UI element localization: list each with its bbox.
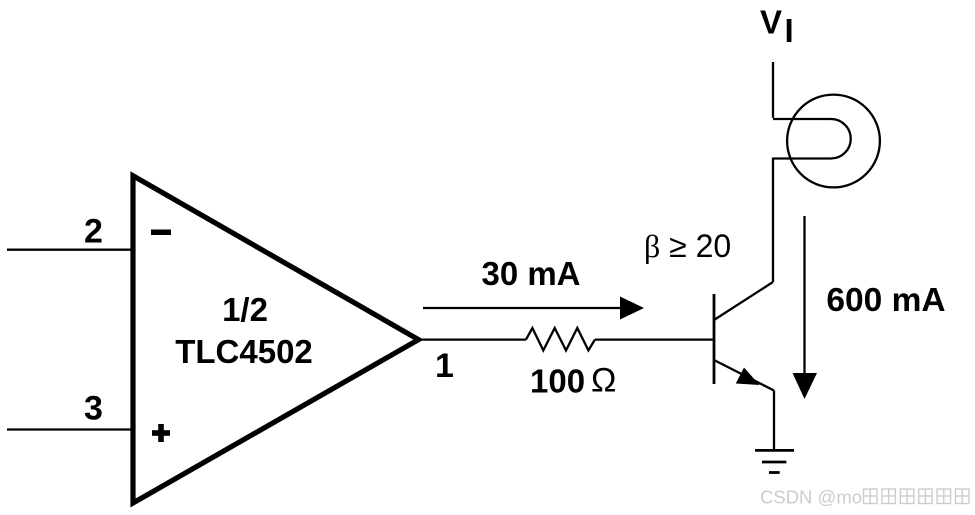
svg-text:100: 100 <box>530 362 585 399</box>
svg-text:Ω: Ω <box>591 362 616 400</box>
svg-text:CSDN @mo: CSDN @mo <box>760 487 862 508</box>
svg-text:1/2: 1/2 <box>222 291 268 328</box>
svg-text:2: 2 <box>84 213 103 251</box>
svg-text:TLC4502: TLC4502 <box>175 333 313 370</box>
svg-text:1: 1 <box>435 347 454 385</box>
svg-text:β ≥ 20: β ≥ 20 <box>644 228 731 264</box>
svg-text:3: 3 <box>84 390 103 428</box>
svg-text:600 mA: 600 mA <box>826 282 945 319</box>
svg-text:30 mA: 30 mA <box>481 255 580 292</box>
svg-text:I: I <box>785 12 794 49</box>
svg-text:V: V <box>760 3 782 40</box>
